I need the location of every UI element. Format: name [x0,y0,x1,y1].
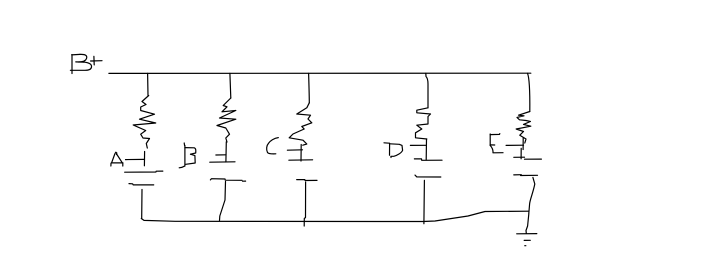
wire A capacitor to ground rail [141,190,143,219]
wire label D dash [410,144,426,146]
wire label E dash [506,144,523,146]
wire B+ rail [109,72,531,74]
wire branch A drop [147,73,149,95]
label A [111,152,123,166]
resistor branch E [516,112,531,144]
label B+ (supply) [70,54,102,73]
label D [384,143,403,158]
resistor branch B [217,98,236,142]
wire branch D drop [426,73,428,108]
ground [517,234,537,246]
wire A resistor to capacitor [143,152,145,166]
label C [267,138,279,154]
wire branch E drop [528,73,530,111]
label B [179,143,196,168]
wire D resistor to capacitor [425,139,427,160]
wire label A dash [126,158,145,160]
wire to ground symbol [526,214,529,233]
capacitor C bottom plate [297,179,317,182]
wire C capacitor to ground rail [304,182,305,226]
wire E resistor to capacitor [521,138,523,159]
wire label B dash [216,154,226,156]
resistor branch D [416,108,431,139]
resistor branch C [289,103,312,145]
capacitor E bottom plate [514,174,522,176]
capacitor D top plate [414,159,442,161]
capacitor A bottom plate [129,184,154,185]
capacitor E top plate [514,157,542,159]
wire B capacitor to ground rail [220,182,226,221]
resistor branch A [133,96,156,149]
wire E capacitor to ground [529,177,535,213]
wire B resistor to capacitor [225,142,227,162]
capacitor D bottom plate [415,175,441,177]
label E [490,134,503,153]
wire C resistor to capacitor [300,145,302,162]
wire D capacitor to ground rail [423,180,426,223]
wire branch C drop [308,73,311,103]
wire branch B drop [229,73,232,98]
capacitor B bottom plate [210,179,245,182]
capacitor A top plate [125,171,163,172]
capacitor B top plate [210,161,235,163]
wire label C dash [287,149,302,151]
capacitor C top plate [289,159,313,161]
wire ground rail [141,211,528,221]
